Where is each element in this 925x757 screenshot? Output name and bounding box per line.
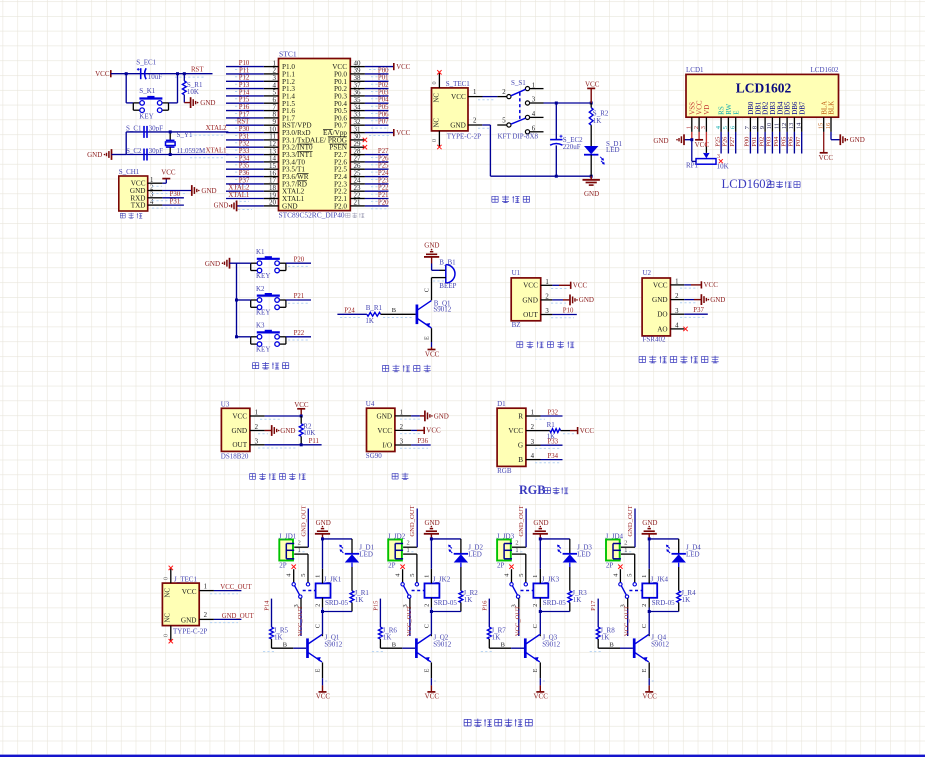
junction R2 top <box>300 415 303 418</box>
transistor J_Q1 S9012 <box>308 634 343 663</box>
junction VCC column top <box>590 102 593 105</box>
svg-text:RST: RST <box>237 119 250 126</box>
value label STC89C52RC_DIP40 <box>279 211 345 220</box>
pin 3 U1 wire net P10 <box>541 307 577 317</box>
junction crystal bottom <box>169 153 172 156</box>
svg-text:P13: P13 <box>239 82 250 89</box>
svg-text:P12: P12 <box>239 75 250 82</box>
pin 2 S_CH1 wire to GND <box>148 185 217 196</box>
LCD pin numbers <box>686 122 832 129</box>
pin 1 U1 VCC <box>523 279 549 290</box>
svg-text:1K: 1K <box>601 634 610 642</box>
resistor J_R1 1K <box>350 589 369 604</box>
svg-text:1: 1 <box>204 583 207 590</box>
svg-text:1: 1 <box>473 89 476 96</box>
relay J_JK1 mechanical link dashed <box>303 590 316 592</box>
value LCD1602 <box>811 66 840 74</box>
svg-text:S9012: S9012 <box>433 641 451 649</box>
pin 1 S_CH1 VCC <box>131 177 154 188</box>
svg-text:P23: P23 <box>378 177 389 184</box>
pin 40 STC1 wire net VCC <box>350 63 410 71</box>
pin 22 STC1 wire net P21 <box>350 192 389 202</box>
power port GND (LCD left) <box>653 134 684 145</box>
svg-text:P03: P03 <box>766 137 773 147</box>
net label P17 wire <box>590 599 598 628</box>
pin 2 S_CH1 GND <box>130 184 154 195</box>
designator STC1 <box>279 50 297 59</box>
pin 6 STC1 wire net P15 <box>226 97 279 107</box>
wire reset right rail down to key <box>169 74 178 103</box>
svg-text:STC1: STC1 <box>279 50 297 59</box>
wire LED to resistor J_R1 <box>351 563 353 591</box>
junction relay pin2 / collector channel 3 <box>539 610 542 613</box>
svg-text:XTAL1: XTAL1 <box>206 148 227 155</box>
designator S_TEC1 <box>446 80 471 88</box>
pin 18 STC1 wire net XTAL2 <box>226 185 279 195</box>
pin 1 J_TEC1 wire net VCC_OUT <box>199 583 252 594</box>
pin 0 S_TEC1 bottom shield stub <box>431 131 441 149</box>
svg-text:GND: GND <box>653 137 668 145</box>
wire K2 left <box>237 299 251 301</box>
designator U2 <box>643 269 652 277</box>
IC LCD1 LCD1602 body <box>686 74 839 117</box>
svg-text:2: 2 <box>502 89 506 96</box>
pin 2 U4 wire to VCC <box>395 427 441 435</box>
svg-text:C: C <box>423 288 430 292</box>
pin 3 U3 wire net P11 <box>250 438 322 448</box>
LCD pin names <box>688 100 835 115</box>
svg-text:NC: NC <box>165 613 172 623</box>
wire LED to resistor J_R2 <box>460 563 462 591</box>
svg-text:0: 0 <box>431 81 438 84</box>
svg-text:LED: LED <box>606 146 620 154</box>
svg-text:SG90: SG90 <box>366 452 382 460</box>
svg-text:1K: 1K <box>573 596 582 604</box>
caption 红外避障模块 <box>517 341 574 348</box>
svg-text:1: 1 <box>532 82 535 89</box>
wire GND to buzzer pin1 <box>432 257 446 270</box>
svg-text:2: 2 <box>473 117 477 124</box>
pin 2 D1 VCC <box>508 424 534 435</box>
pin 2 J_JD3 wire to GND_OUT net <box>512 505 526 551</box>
svg-text:VCC: VCC <box>182 588 197 596</box>
caption 按键电路 <box>252 362 288 369</box>
wire relay pin2 to transistor collector <box>532 612 540 637</box>
svg-text:VCC: VCC <box>523 282 538 290</box>
svg-text:BLK: BLK <box>828 101 836 115</box>
svg-text:GND: GND <box>584 190 599 198</box>
svg-text:5: 5 <box>300 573 307 576</box>
wire K1 left <box>237 262 251 264</box>
pin 3 S_CH1 wire net P30 <box>148 191 184 201</box>
pin 2 U1 GND <box>522 294 549 305</box>
junction (R1 branch) <box>183 72 186 75</box>
svg-text:GND: GND <box>282 202 298 210</box>
svg-text:GND_OUT: GND_OUT <box>222 613 255 620</box>
svg-text:1: 1 <box>423 575 430 578</box>
svg-text:KFT DIP-8X8: KFT DIP-8X8 <box>498 132 539 140</box>
relay J_JK3 SRD-05 coil body <box>533 576 566 607</box>
svg-text:5: 5 <box>409 573 416 576</box>
svg-text:C: C <box>314 624 321 628</box>
svg-text:J_JK3: J_JK3 <box>542 576 560 584</box>
svg-text:VCC: VCC <box>573 282 588 290</box>
wire LED to resistor J_R3 <box>569 563 571 591</box>
svg-text:BEEP: BEEP <box>439 282 456 290</box>
svg-text:P33: P33 <box>239 148 250 155</box>
svg-text:2: 2 <box>624 540 627 547</box>
relay J_JK1 pin 4 stub <box>286 565 296 583</box>
designator D1 <box>497 400 506 408</box>
value 2P J_JD3 <box>497 562 505 570</box>
svg-text:GND: GND <box>710 296 725 304</box>
svg-text:VCC: VCC <box>232 412 247 420</box>
svg-text:VCC: VCC <box>294 401 309 409</box>
svg-text:0: 0 <box>163 634 170 637</box>
pin 12 STC1 wire net P32 <box>226 141 279 151</box>
svg-text:11.0592M: 11.0592M <box>177 147 206 155</box>
pin 2 STC1 wire net P11 <box>226 67 279 77</box>
S_TEC1 NC pin names <box>434 93 441 128</box>
pin 7 STC1 wire net P16 <box>226 104 279 114</box>
pin 2 S_TEC1 wire down to bottom rail <box>468 117 591 176</box>
relay J_JK3 contact arm <box>510 583 528 599</box>
relay J_JK4 pin 1 wire to GND <box>641 539 649 584</box>
relay J_JK1 pin 5 label <box>300 573 307 576</box>
svg-text:TXD: TXD <box>131 202 146 210</box>
potentiometer RP1 10K <box>686 140 729 171</box>
svg-text:J_JD4: J_JD4 <box>606 532 624 540</box>
resistor J_R6 1K <box>379 627 398 642</box>
pin 16 STC1 wire net P36 <box>226 170 279 180</box>
svg-text:GND: GND <box>200 99 215 107</box>
svg-text:VCC: VCC <box>95 70 110 78</box>
value 2P J_JD4 <box>606 562 614 570</box>
pin 5 STC1 wire net P14 <box>226 89 279 99</box>
value TYPE-C-2P J_TEC1 <box>173 628 207 636</box>
capacitor S_C2 30pF <box>126 147 163 161</box>
svg-text:FSR402: FSR402 <box>643 336 666 344</box>
net label XTAL1 <box>190 148 227 158</box>
svg-text:P20: P20 <box>294 256 305 263</box>
power port GND (reset circuit) <box>191 97 216 108</box>
svg-text:LCD1602: LCD1602 <box>736 81 792 96</box>
svg-text:1K: 1K <box>355 596 364 604</box>
pin 29 STC1 wire net NC <box>350 145 367 149</box>
designator LCD1 <box>686 66 704 74</box>
pin 3 D1 G <box>518 439 535 450</box>
pin 3 STC1 wire net P12 <box>226 75 279 85</box>
svg-text:BZ: BZ <box>512 321 521 329</box>
svg-text:KEY: KEY <box>256 309 270 317</box>
wire K1 to net P20 <box>286 256 311 266</box>
svg-text:P20: P20 <box>378 199 389 206</box>
svg-text:1: 1 <box>314 575 321 578</box>
svg-text:LCD1602: LCD1602 <box>811 66 840 74</box>
value SG90 <box>366 452 382 460</box>
pin 14 STC1 wire net P34 <box>226 155 279 165</box>
capacitor S_EC1 10uF <box>136 59 162 82</box>
pin 31 STC1 wire net VCC <box>350 129 410 137</box>
connector J_JD4 2P body <box>606 540 621 561</box>
svg-text:VCC: VCC <box>316 692 331 700</box>
value 2P J_JD1 <box>279 562 287 570</box>
svg-text:S_TEC1: S_TEC1 <box>446 80 471 88</box>
svg-text:1: 1 <box>515 547 518 554</box>
wire K2 to net P21 <box>286 293 311 303</box>
svg-text:1K: 1K <box>274 634 283 642</box>
pin 24 STC1 wire net P23 <box>350 177 389 187</box>
value RGB <box>497 467 512 475</box>
caption 温度检测模块 <box>250 473 306 480</box>
power port GND (power circuit) <box>583 176 600 198</box>
relay J_JK4 SRD-05 coil body <box>642 576 675 607</box>
pin 2 J_JD4 wire to GND_OUT net <box>621 505 635 551</box>
svg-text:E: E <box>641 668 648 672</box>
svg-text:TYPE-C-2P: TYPE-C-2P <box>447 133 481 141</box>
svg-text:P34: P34 <box>239 155 250 162</box>
wire key circuit left rail <box>236 263 238 337</box>
svg-text:2: 2 <box>314 604 321 607</box>
svg-text:1: 1 <box>298 547 301 554</box>
svg-text:VCC_OUT: VCC_OUT <box>297 606 304 636</box>
pin 1 J_JD2 wire to relay pin5 <box>403 547 417 583</box>
relay J_JK1 SRD-05 coil body <box>316 576 349 607</box>
svg-text:LED: LED <box>577 550 591 558</box>
designator S_CH1 <box>119 168 140 176</box>
svg-text:P22: P22 <box>294 330 305 337</box>
svg-text:GND: GND <box>533 519 548 527</box>
pin 1 D1 wire net P32 <box>526 409 563 419</box>
svg-text:E: E <box>423 668 430 672</box>
pin 3 S_CH1 RXD <box>130 192 154 203</box>
pin 2 J_TEC1 wire net GND_OUT <box>199 612 254 623</box>
svg-text:P11: P11 <box>239 67 249 74</box>
pin 1 U3 VCC <box>232 410 258 421</box>
power port GND (channel 1) <box>315 519 331 539</box>
svg-text:P26: P26 <box>378 155 389 162</box>
svg-text:GND: GND <box>232 427 248 435</box>
value DS18B20 <box>221 452 249 460</box>
svg-text:OUT: OUT <box>232 441 247 449</box>
svg-text:AO: AO <box>657 325 667 333</box>
resistor R2 10K pull-up <box>299 416 315 445</box>
pin 13 STC1 wire net P33 <box>226 148 279 158</box>
svg-text:2: 2 <box>532 604 539 607</box>
wire emitter to VCC channel 4 <box>641 662 657 700</box>
pin 0 S_TEC1 top shield stub <box>431 70 441 88</box>
wire J_R7 to base <box>481 639 524 652</box>
pin 4 STC1 wire net P13 <box>226 82 279 92</box>
svg-text:P16: P16 <box>481 600 488 611</box>
svg-text:VCC_OUT: VCC_OUT <box>406 606 413 636</box>
svg-text:SRD-05: SRD-05 <box>543 599 566 607</box>
net label RST <box>175 67 205 77</box>
connector S_CH1 body <box>119 176 148 211</box>
pin 39 STC1 wire net P00 <box>350 67 389 77</box>
svg-text:VCC: VCC <box>580 427 595 435</box>
power port GND (key circuit) <box>205 258 237 269</box>
svg-text:K3: K3 <box>256 322 265 330</box>
capacitor S_EC2 220uF <box>550 103 583 176</box>
relay J_JK3 mechanical link dashed <box>521 590 534 592</box>
wire J_R8 to base <box>590 639 633 652</box>
pin 2 U2 GND <box>652 293 679 304</box>
LED S_D1 <box>584 140 622 176</box>
designator U3 <box>221 400 230 408</box>
svg-text:2P: 2P <box>279 562 287 570</box>
capacitor S_C1 30pF <box>126 124 163 138</box>
key K2 <box>251 285 286 317</box>
svg-text:P17: P17 <box>590 600 597 611</box>
switch S_S1 KFT DIP-8X8 <box>497 79 543 140</box>
svg-text:K2: K2 <box>256 285 265 293</box>
pin 20 STC1 wire GND <box>214 201 279 212</box>
svg-text:J_JD2: J_JD2 <box>388 532 406 540</box>
svg-text:1: 1 <box>407 547 410 554</box>
svg-text:RST: RST <box>191 67 204 74</box>
svg-text:KEY: KEY <box>256 346 270 354</box>
svg-text:KEY: KEY <box>256 272 270 280</box>
pin 8 STC1 wire net P17 <box>226 111 279 121</box>
pin 9 STC1 wire net RST <box>226 119 279 129</box>
svg-text:P16: P16 <box>239 104 250 111</box>
svg-text:P07: P07 <box>795 136 802 147</box>
svg-text:S9012: S9012 <box>651 641 669 649</box>
relay J_JK3 pin 3 wire net VCC_OUT <box>511 598 522 636</box>
svg-text:2: 2 <box>298 540 301 547</box>
junction (reset rail right) <box>176 72 179 75</box>
svg-text:P26: P26 <box>722 137 729 147</box>
designator J_JD4 <box>606 532 624 540</box>
junction relay pin2 / collector channel 1 <box>321 610 324 613</box>
net label P14 wire <box>264 599 272 628</box>
svg-text:B: B <box>518 456 523 464</box>
svg-text:5: 5 <box>518 573 525 576</box>
pin 11 STC1 wire net P31 <box>226 133 279 143</box>
value 2P J_JD2 <box>388 562 396 570</box>
resistor J_R7 1K <box>487 627 506 642</box>
designator J_JD2 <box>388 532 406 540</box>
label 单片机 <box>346 213 365 218</box>
svg-text:GND: GND <box>425 519 440 527</box>
svg-text:SRD-05: SRD-05 <box>434 599 457 607</box>
svg-text:P15: P15 <box>372 600 379 611</box>
svg-text:B: B <box>392 642 396 649</box>
relay J_JK2 contact arm <box>401 583 419 599</box>
pin 1 D1 R <box>518 410 534 421</box>
wire emitter to VCC channel 2 <box>423 662 439 700</box>
svg-text:P11: P11 <box>309 438 319 445</box>
svg-text:S9012: S9012 <box>542 641 560 649</box>
svg-text:P33: P33 <box>548 439 559 446</box>
svg-text:GND: GND <box>424 242 439 250</box>
relay J_JK2 SRD-05 coil body <box>425 576 458 607</box>
junction LED bottom rail <box>590 175 593 178</box>
svg-text:VCC: VCC <box>396 130 410 137</box>
pin 1 U4 wire to GND <box>395 411 449 422</box>
svg-text:E: E <box>532 668 539 672</box>
junction R2 bottom <box>300 443 303 446</box>
connector J_JD1 2P body <box>279 540 294 561</box>
resistor J_R4 1K <box>677 589 696 604</box>
svg-text:GND_OUT: GND_OUT <box>627 505 634 536</box>
svg-text:P04: P04 <box>773 136 780 147</box>
module U3 DS18B20 body <box>221 408 250 451</box>
svg-text:GND: GND <box>316 519 331 527</box>
relay J_JK1 pin 2 wire <box>314 598 322 612</box>
svg-text:P31: P31 <box>239 133 250 140</box>
svg-text:C: C <box>423 624 430 628</box>
buzzer B_B1 BEEP <box>439 258 456 290</box>
wire J_R2 to relay pin 2 rail <box>431 603 461 612</box>
module D1 RGB body <box>497 408 526 466</box>
power port GND (channel 2) <box>424 519 440 539</box>
svg-text:GND_OUT: GND_OUT <box>518 505 525 536</box>
pin 3 U1 OUT <box>523 308 549 319</box>
wire LCD VD pin3 to RP1 wiper <box>705 132 707 153</box>
wire emitter to VCC (buzzer) <box>423 328 439 358</box>
svg-text:D1: D1 <box>497 400 506 408</box>
svg-text:2: 2 <box>515 540 518 547</box>
svg-text:VCC_OUT: VCC_OUT <box>220 584 252 591</box>
svg-text:S9012: S9012 <box>433 306 451 314</box>
svg-text:S_EC1: S_EC1 <box>136 59 156 67</box>
resistor B_R1 1K <box>365 304 382 325</box>
svg-text:VCC: VCC <box>451 93 466 101</box>
pin 1 J_JD1 wire to relay pin5 <box>294 547 308 583</box>
svg-text:VCC_OUT: VCC_OUT <box>515 606 522 636</box>
relay J_JK4 pin 4 stub <box>612 565 622 583</box>
svg-text:NC: NC <box>434 118 441 128</box>
relay J_JK2 pin 2 wire <box>423 598 431 612</box>
svg-text:TYPE-C-2P: TYPE-C-2P <box>173 628 207 636</box>
relay J_JK2 pin 1 wire to GND <box>423 539 431 584</box>
value FSR402 <box>643 336 666 344</box>
relay J_JK3 pin 2 wire <box>532 598 540 612</box>
svg-text:LCD1: LCD1 <box>686 66 704 74</box>
pin 21 STC1 wire net P20 <box>350 199 389 209</box>
pin 28 STC1 wire net P27 <box>350 148 389 158</box>
wire switch pin3 to VCC rail <box>544 102 592 104</box>
junction EC2 bottom <box>555 175 558 178</box>
svg-text:P35: P35 <box>239 163 250 170</box>
svg-text:VCC: VCC <box>377 427 392 435</box>
pin 2 U3 GND <box>232 424 259 435</box>
svg-text:J_JK2: J_JK2 <box>433 576 451 584</box>
resistor J_R5 1K <box>270 627 289 642</box>
svg-text:P30: P30 <box>239 126 250 133</box>
svg-text:DS18B20: DS18B20 <box>221 452 249 460</box>
svg-text:XTAL1: XTAL1 <box>228 192 249 199</box>
key K3 <box>251 322 286 354</box>
LED J_D4 <box>666 543 701 562</box>
svg-text:2P: 2P <box>497 562 505 570</box>
svg-text:S_S1: S_S1 <box>511 79 526 87</box>
pin 0 J_TEC1 top shield stub <box>163 566 173 583</box>
svg-text:S_C2: S_C2 <box>126 147 142 155</box>
svg-text:1K: 1K <box>365 317 374 325</box>
svg-text:1: 1 <box>532 575 539 578</box>
pin 1 U2 VCC <box>653 279 679 290</box>
svg-text:VCC: VCC <box>653 281 668 289</box>
pin 3 D1 wire net P33 <box>526 439 563 449</box>
relay J_JK4 pin 5 label <box>627 573 634 576</box>
svg-text:LED: LED <box>686 550 700 558</box>
wire B_R1 to base <box>381 307 416 317</box>
svg-text:P14: P14 <box>264 600 271 611</box>
svg-text:VCC_OUT: VCC_OUT <box>624 606 631 636</box>
